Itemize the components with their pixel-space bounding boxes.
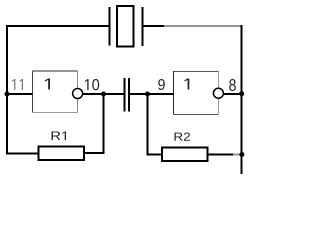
wire drop from node 9 <box>147 94 149 155</box>
pin label 9 <box>158 79 165 90</box>
inverter U1B box <box>174 71 219 114</box>
pin label 8 <box>229 79 236 91</box>
wire R2 left lead <box>147 154 163 156</box>
wire top left horizontal <box>6 25 109 27</box>
wire right rail vertical <box>241 25 243 174</box>
resistor label R2 <box>174 133 189 141</box>
inverter U1A label 1 <box>45 78 50 89</box>
capacitor C1 left plate <box>124 78 126 112</box>
capacitor C1 right plate <box>128 78 130 112</box>
crystal X1 right plate <box>142 7 144 46</box>
wire crystal right lead gray part <box>164 25 241 27</box>
junction node 9 <box>145 92 150 97</box>
inverter U1A output bubble <box>73 89 83 99</box>
wire R1 left lead <box>6 153 39 155</box>
resistor R2 body <box>162 148 208 162</box>
wire drop from node 10 <box>103 94 105 153</box>
wire pin8 output to right rail <box>224 93 242 95</box>
wire left rail vertical <box>6 25 8 155</box>
junction node 11 <box>5 92 10 97</box>
resistor R1 body <box>39 147 85 161</box>
resistor label R1 <box>51 132 65 140</box>
junction node 8 bottom <box>239 152 244 157</box>
wire crystal right lead black part <box>144 25 165 27</box>
wire R2 right lead gray part <box>233 154 240 156</box>
crystal X1 left plate <box>108 7 110 46</box>
pin label 10 <box>85 79 99 90</box>
wire pin11 input <box>7 93 33 95</box>
pin label 11 <box>12 79 23 90</box>
inverter U1B output bubble <box>213 88 223 98</box>
junction node 10 <box>101 92 106 97</box>
wire R1 right lead <box>84 152 105 154</box>
wire cap to pin9 <box>130 93 174 95</box>
crystal X1 body <box>117 6 134 46</box>
wire R2 right lead black part <box>208 154 234 156</box>
inverter U1B label 1 <box>185 78 190 89</box>
inverter U1A box <box>33 71 78 113</box>
junction node 8 top <box>239 91 244 96</box>
wire pin10 output to cap <box>83 93 124 95</box>
